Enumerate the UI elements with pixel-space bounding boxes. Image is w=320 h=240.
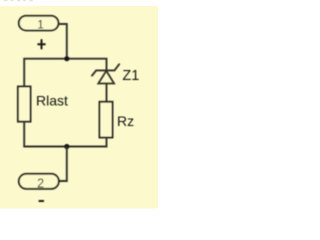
clipped toolbar text remnant top-left — [4, 0, 33, 1]
svg-text:2: 2 — [37, 176, 44, 190]
zener Z1 triangle — [98, 71, 114, 84]
resistor Rlast — [18, 87, 31, 122]
svg-text:1: 1 — [37, 18, 44, 32]
wire bottom junction to terminal 2 — [60, 147, 67, 182]
wire terminal1 to top junction — [59, 24, 67, 59]
label - — [39, 200, 44, 202]
svg-text:Rlast: Rlast — [36, 93, 68, 109]
wire zener to Rz — [106, 84, 108, 102]
junction bottom node — [64, 144, 69, 149]
zener Z1 cathode bar — [92, 64, 119, 75]
svg-text:Z1: Z1 — [122, 68, 139, 84]
svg-text:Rz: Rz — [117, 113, 134, 129]
label + — [37, 39, 45, 49]
resistor Rz — [100, 102, 113, 138]
wire bottom rail — [24, 122, 106, 147]
terminal 1 (oval pin symbol) — [19, 16, 59, 31]
schematic sheet background — [0, 6, 158, 209]
wire top rail — [24, 59, 106, 87]
junction top node — [64, 56, 69, 61]
white page background — [0, 0, 158, 220]
terminal 2 (oval pin symbol) — [19, 174, 59, 189]
